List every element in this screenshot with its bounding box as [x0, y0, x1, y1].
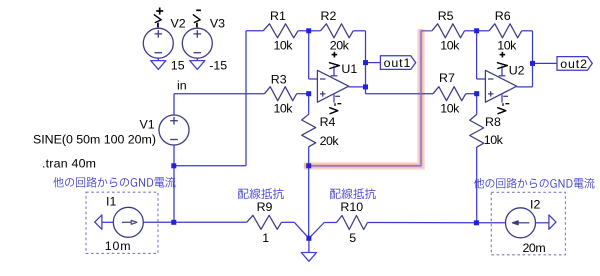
net flag - on U2 V-: [498, 103, 510, 114]
svg-text:20k: 20k: [330, 38, 350, 52]
wire R10 right to rail and I2: [368, 222, 506, 224]
junction out1: [363, 60, 368, 65]
resistor R5 10k: [432, 24, 465, 38]
value 10k of R8: [484, 133, 504, 147]
net flag + on U1 V+: [329, 63, 339, 69]
net port out1: [380, 56, 415, 70]
wire out1 node to flag: [366, 62, 381, 64]
svg-text:10k: 10k: [440, 38, 460, 52]
wire U1 output to out1 node: [349, 63, 366, 94]
ground below V3: [190, 61, 205, 70]
ground below V2: [151, 61, 166, 70]
resistor R6 10k: [489, 24, 522, 38]
svg-text:R10: R10: [340, 200, 363, 214]
resistor R9 wiring resistance 1: [247, 215, 282, 229]
label U1: [341, 62, 357, 76]
arrow out of I2: [549, 215, 556, 229]
note: GND current from other circuits (right): [474, 178, 594, 189]
junction V1 minus node: [171, 163, 176, 168]
wire R9 right to ground node: [282, 222, 309, 238]
wire I1 left stub: [102, 221, 113, 223]
svg-text:-15: -15: [209, 58, 227, 72]
svg-text:V2: V2: [171, 16, 186, 30]
wire I2 right stub: [536, 222, 549, 224]
wire R5 right to junction: [465, 30, 477, 32]
voltage source V3 -15V: [182, 28, 212, 58]
wire R4 bottom stub to red node: [308, 147, 310, 166]
wire R4 top stub: [308, 94, 310, 115]
junction R5-R6: [474, 28, 479, 33]
wire R2 stubs: [309, 30, 366, 32]
net flag + on V2: [154, 15, 161, 27]
node label in: [177, 79, 187, 93]
resistor R3 10k: [265, 87, 297, 101]
op-amp U1: [317, 66, 348, 103]
svg-text:I2: I2: [530, 198, 540, 212]
wire R3 right to junction: [297, 93, 309, 95]
svg-text:.tran 40m: .tran 40m: [42, 157, 96, 171]
label V2: [171, 16, 186, 30]
label U2: [509, 63, 525, 77]
value 20k of R4: [320, 134, 340, 148]
value 10k of R5: [440, 38, 460, 52]
svg-text:R2: R2: [321, 9, 337, 23]
wire out2 node to flag: [533, 62, 558, 64]
wire R6 stubs: [477, 30, 533, 32]
label + above U2 V+ flag: [500, 52, 506, 58]
value 20m of I2: [523, 241, 546, 255]
junction star ground node: [306, 236, 311, 241]
wire U2 output to out2 node: [517, 63, 533, 87]
junction out2: [530, 61, 535, 66]
net flag - on U1 V-: [330, 103, 342, 114]
wire V2 stubs: [157, 23, 159, 61]
svg-text:U1: U1: [341, 62, 357, 76]
junction R1-R2: [306, 28, 311, 33]
label V3: [210, 16, 225, 30]
current source I1 10m: [113, 207, 143, 237]
svg-text:20k: 20k: [320, 134, 340, 148]
svg-text:R5: R5: [438, 9, 454, 23]
net flag - on V3: [193, 15, 200, 27]
wire highlighted net: R4 bottom to R5 left: [309, 31, 432, 166]
value -15 of V3: [209, 58, 227, 72]
wire in net: V1 plus to R3 left: [174, 94, 265, 116]
svg-text:V3: V3: [210, 16, 225, 30]
svg-text:10k: 10k: [274, 102, 294, 116]
svg-text:R9: R9: [257, 200, 273, 214]
label R4: [320, 115, 336, 129]
label R7: [439, 71, 455, 85]
svg-text:20m: 20m: [523, 241, 546, 255]
voltage source V2 15V: [143, 28, 173, 58]
svg-text:R6: R6: [495, 9, 511, 23]
label I2: [530, 198, 540, 212]
op-amp U2: [485, 66, 516, 103]
value 10k of R6: [497, 38, 517, 52]
label + above U1 V+ flag: [332, 52, 338, 58]
voltage source V1 SINE: [159, 115, 189, 145]
svg-text:out1: out1: [384, 56, 411, 70]
current source I2 20m: [506, 208, 536, 238]
ground at star point: [301, 253, 316, 262]
wire junction down to U1 inverting input: [309, 31, 318, 79]
net port out2: [557, 57, 592, 71]
resistor R7 10k: [433, 87, 466, 101]
junction R3-R4-U1+: [306, 91, 311, 96]
junction rail at V1 ground: [171, 220, 176, 225]
wire junction down to U2 inverting input: [477, 31, 486, 79]
note: wiring resistance (left): [238, 188, 284, 199]
value 5 of R10: [349, 231, 356, 245]
label V1: [140, 118, 155, 132]
svg-text:10k: 10k: [497, 38, 517, 52]
junction U1 output: [363, 84, 368, 89]
wire R2 right down to out1 node: [365, 31, 367, 63]
wire R8 top stub: [476, 94, 478, 115]
value 10m of I1: [105, 239, 131, 253]
spice directive .tran: [42, 157, 96, 171]
value 10k of R3: [274, 102, 294, 116]
svg-text:out2: out2: [560, 57, 587, 71]
highlighted net (red marker band): [304, 29, 421, 166]
svg-text:5: 5: [349, 231, 356, 245]
value 15 of V2: [171, 58, 185, 72]
svg-text:10k: 10k: [274, 38, 294, 52]
svg-text:R1: R1: [270, 9, 286, 23]
value 10k of R1: [274, 38, 294, 52]
wire ground rail left: I1 to R9: [143, 221, 246, 223]
label R10: [340, 200, 363, 214]
resistor R8 10k: [470, 114, 484, 147]
value 20k of R2: [330, 38, 350, 52]
value of V1: [33, 133, 156, 147]
wire ground node down: [308, 238, 310, 252]
label - above V3 flag: [196, 9, 201, 11]
svg-text:V1: V1: [140, 118, 155, 132]
svg-text:15: 15: [171, 58, 185, 72]
wire V1 minus down to node: [173, 145, 175, 166]
label R9: [257, 200, 273, 214]
wire out1 node to R7 left: [366, 93, 434, 95]
wire ground node to R10 left: [309, 223, 337, 239]
svg-text:I1: I1: [106, 195, 116, 209]
junction R7-R8-U2+: [474, 91, 479, 96]
junction rail at R8: [474, 220, 479, 225]
svg-text:U2: U2: [509, 63, 525, 77]
svg-text:1: 1: [262, 231, 269, 245]
svg-text:SINE(0 50m 100 20m): SINE(0 50m 100 20m): [33, 133, 156, 147]
resistor R2 20k: [321, 24, 354, 38]
wire V3 stubs: [196, 23, 198, 61]
note: GND current from other circuits (left): [53, 177, 175, 188]
label R5: [438, 9, 454, 23]
wire V1 minus node down to rail: [173, 166, 175, 223]
resistor R4 20k: [302, 114, 316, 147]
label R1: [270, 9, 286, 23]
svg-text:10k: 10k: [440, 102, 460, 116]
label R8: [485, 115, 501, 129]
label + above V2 flag: [156, 8, 163, 15]
svg-text:R8: R8: [485, 115, 501, 129]
dashed box around I2: [491, 192, 565, 255]
svg-text:10m: 10m: [105, 239, 131, 253]
resistor R1 10k: [263, 24, 298, 38]
svg-text:R3: R3: [271, 73, 287, 87]
value 10k of R7: [440, 102, 460, 116]
svg-text:10k: 10k: [484, 133, 504, 147]
label I1: [106, 195, 116, 209]
value 1 of R9: [262, 231, 269, 245]
wire V1 minus node to R1 left vertical: [174, 31, 263, 166]
note: wiring resistance (right): [330, 188, 376, 199]
label R6: [495, 9, 511, 23]
svg-text:R7: R7: [439, 71, 455, 85]
label R2: [321, 9, 337, 23]
junction R4 bottom on highlighted net: [306, 163, 311, 168]
dashed box around I1: [86, 192, 158, 253]
svg-text:R4: R4: [320, 115, 336, 129]
wire R6 right down to out2 node: [532, 31, 534, 64]
wire red node down to ground node: [308, 166, 310, 239]
arrow out of I1: [95, 215, 102, 229]
label R3: [271, 73, 287, 87]
resistor R10 wiring resistance 5: [337, 216, 368, 230]
net flag + on U2 V+: [497, 63, 507, 69]
svg-text:in: in: [177, 79, 187, 93]
wire R8 bottom to rail: [476, 147, 478, 223]
wire R1 right to junction: [298, 30, 309, 32]
wire R7 right to junction: [466, 93, 477, 95]
